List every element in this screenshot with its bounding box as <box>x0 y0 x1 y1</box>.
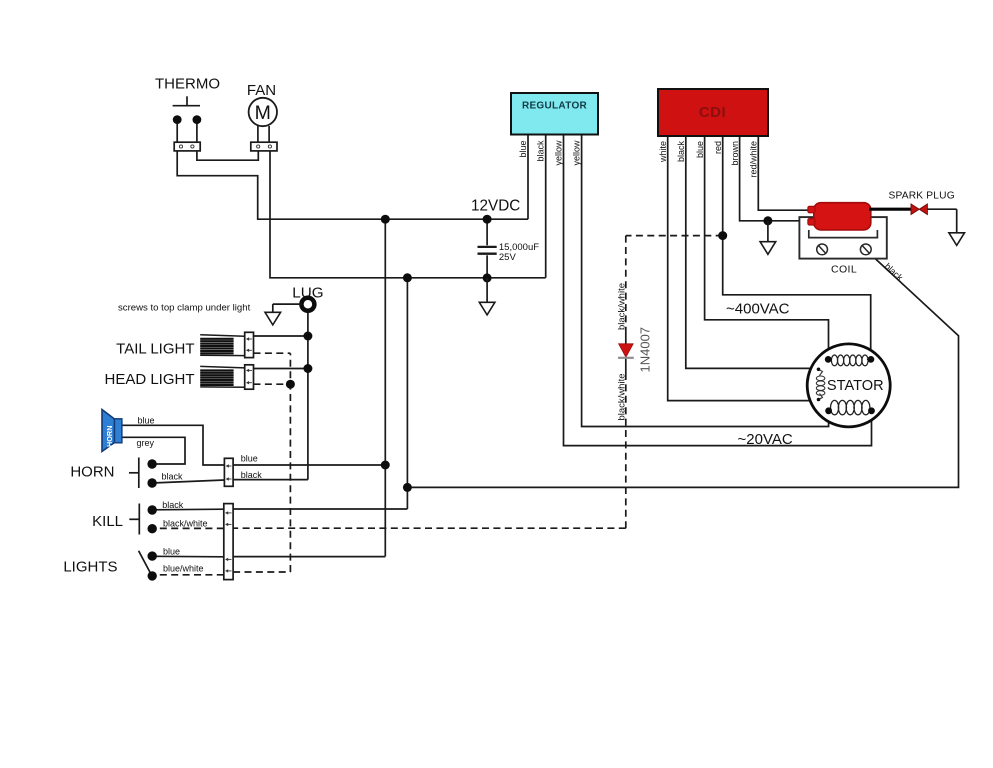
svg-text:blue/white: blue/white <box>163 564 204 574</box>
wire head light to lug <box>254 368 308 370</box>
wire LIGHTS blue <box>152 555 224 558</box>
wire diode leads solid <box>625 327 627 345</box>
svg-text:screws to top clamp under ligh: screws to top clamp under light <box>118 303 251 314</box>
svg-text:black: black <box>162 500 184 510</box>
svg-text:black/white: black/white <box>616 283 627 330</box>
kill switch bracket <box>138 504 140 535</box>
svg-text:HORN: HORN <box>105 426 114 448</box>
thermo terminal left <box>173 115 182 124</box>
thermo terminal right <box>193 115 202 124</box>
ground at coil <box>767 221 769 242</box>
wire THERMO right pin to FAN left pin <box>197 151 258 160</box>
node dashed junction on CDI red <box>718 231 727 240</box>
connector tail light <box>245 332 254 357</box>
svg-text:COIL: COIL <box>831 263 857 275</box>
connector thermo <box>174 142 200 151</box>
horn switch terminal top <box>147 459 156 468</box>
svg-text:SPARK PLUG: SPARK PLUG <box>889 191 955 202</box>
wire LIGHTS blue out to 12VDC vertical <box>233 556 385 558</box>
kill switch terminal bottom <box>148 524 157 533</box>
wire regulator yellow 2 to stator lighting coil left <box>582 135 829 427</box>
coil bracket box <box>799 217 886 259</box>
node 12VDC bus dot B <box>483 215 492 224</box>
svg-text:HORN: HORN <box>70 463 114 480</box>
wire horn blue lead <box>122 425 225 465</box>
stator terminal bottom right <box>868 407 875 414</box>
coil mounting screw right <box>860 244 871 255</box>
svg-text:LIGHTS: LIGHTS <box>63 558 117 575</box>
wire tail light to lug <box>254 335 308 337</box>
svg-text:blue: blue <box>518 141 528 158</box>
head light filament coil <box>200 369 233 371</box>
svg-text:~20VAC: ~20VAC <box>738 431 793 448</box>
stator lighting coil (bottom) <box>831 400 839 414</box>
dashed wire black/white CDI junction to diode <box>625 236 627 327</box>
svg-text:TAIL LIGHT: TAIL LIGHT <box>116 340 194 357</box>
node dashed junction headlight <box>286 380 295 389</box>
node tail light junction <box>303 332 312 341</box>
dashed wire blue/white vertical <box>289 353 291 572</box>
svg-text:blue: blue <box>241 454 258 464</box>
svg-text:black/white: black/white <box>163 518 208 528</box>
svg-text:STATOR: STATOR <box>827 378 884 394</box>
node head light junction <box>303 364 312 373</box>
wire regulator blue to 12VDC bus <box>527 135 529 220</box>
stator terminal bottom left <box>825 407 832 414</box>
node horn blue junction <box>381 461 390 470</box>
svg-text:CDI: CDI <box>699 104 726 121</box>
capacitor C1 plates <box>478 246 497 248</box>
kill switch terminal top <box>148 505 157 514</box>
wire capacitor bottom lead <box>486 255 488 278</box>
wire CDI white to stator pickup <box>668 136 817 401</box>
svg-text:black: black <box>162 471 184 481</box>
wire CDI red/white to coil primary <box>758 136 808 210</box>
horn switch terminal bottom <box>147 478 156 487</box>
wire regulator black to ground bus <box>545 135 547 278</box>
wire 12VDC feed vertical <box>384 219 386 556</box>
stator circle <box>807 344 890 427</box>
wire KILL black out to ground bus <box>233 508 407 510</box>
wire CDI brown to coil ground <box>740 136 809 221</box>
svg-text:~400VAC: ~400VAC <box>726 301 790 318</box>
connector kill and lights <box>224 504 233 580</box>
connector head light <box>245 365 254 389</box>
svg-text:yellow: yellow <box>572 140 582 166</box>
wire lug to ground <box>273 303 302 305</box>
wire ground bus vertical <box>406 278 408 509</box>
wire spark plug to ground <box>927 208 956 210</box>
svg-text:white: white <box>658 141 668 163</box>
spark plug HT lead <box>869 208 911 211</box>
dashed wire blue/white LIGHTS <box>156 574 224 576</box>
stator pickup terminal top <box>817 368 821 372</box>
cdi box U1 <box>658 89 768 136</box>
lug ring terminal <box>301 298 314 311</box>
horn speaker <box>102 410 115 452</box>
svg-text:blue: blue <box>163 546 180 556</box>
wire CDI blue ~400VAC to stator <box>705 136 829 357</box>
regulator box U2 <box>511 93 598 135</box>
wire KILL black <box>152 508 224 511</box>
node kill ground junction <box>403 483 412 492</box>
diode D1 cathode bar <box>618 357 634 359</box>
lights switch terminal top <box>148 551 157 560</box>
stator pickup coil (left) <box>816 376 825 381</box>
svg-text:blue: blue <box>138 416 155 426</box>
stator charging coil (top) <box>831 355 837 366</box>
svg-text:yellow: yellow <box>554 140 564 166</box>
node coil ground junction <box>763 216 772 225</box>
coil bracket shelf <box>809 230 878 238</box>
fan motor M circle <box>249 98 277 126</box>
svg-text:THERMO: THERMO <box>155 76 220 93</box>
wire capacitor top lead <box>486 219 488 245</box>
svg-text:red: red <box>713 141 723 154</box>
svg-text:REGULATOR: REGULATOR <box>522 101 588 112</box>
wire horn grey lead <box>122 437 185 464</box>
svg-text:red/white: red/white <box>749 141 759 178</box>
dashed wire black/white horizontal to KILL <box>233 527 626 529</box>
wire horn connector blue out <box>233 464 385 466</box>
spark plug gap symbol <box>911 204 919 215</box>
wire CDI red to stator top right <box>723 136 871 357</box>
svg-text:black/white: black/white <box>616 374 627 421</box>
wire FAN motor leads <box>257 126 259 142</box>
horn switch bracket <box>138 458 140 489</box>
svg-text:black: black <box>676 141 686 163</box>
svg-text:12VDC: 12VDC <box>471 198 520 215</box>
lights switch lever <box>139 551 152 575</box>
svg-text:KILL: KILL <box>92 513 123 530</box>
wire LUG ground drop <box>307 313 309 480</box>
connector horn <box>224 458 233 486</box>
wire horn switch to connector black <box>152 480 224 483</box>
dashed wire tail light return <box>254 352 291 354</box>
lights switch terminal bottom <box>148 571 157 580</box>
wire THERMO terminal leads <box>176 121 178 142</box>
connector fan <box>251 142 277 151</box>
svg-text:M: M <box>255 102 271 124</box>
ground at spark plug <box>956 209 958 233</box>
dashed wire diode to kill bus <box>625 373 627 528</box>
svg-text:black: black <box>241 470 263 480</box>
wire CDI black to stator pickup <box>686 136 817 368</box>
svg-text:grey: grey <box>137 438 155 448</box>
svg-text:black: black <box>536 140 546 162</box>
coil T1 red body <box>814 203 871 230</box>
dashed wire head light return <box>254 383 291 385</box>
svg-text:brown: brown <box>730 141 740 166</box>
svg-text:1N4007: 1N4007 <box>638 327 653 373</box>
svg-text:FAN: FAN <box>247 82 276 99</box>
thermo switch bar <box>173 105 200 107</box>
node ground bus dot A <box>403 273 412 282</box>
wire horn connector black to lug ground <box>233 479 308 481</box>
tail light filament coil <box>200 338 233 340</box>
wire FAN right pin to ground bus <box>270 151 546 278</box>
node 12VDC bus dot A <box>381 215 390 224</box>
node ground bus dot B <box>483 273 492 282</box>
svg-text:blue: blue <box>695 141 705 158</box>
stator pickup terminal bottom <box>817 398 821 402</box>
svg-text:HEAD LIGHT: HEAD LIGHT <box>104 371 194 388</box>
wire coil bracket black ground return <box>407 251 958 487</box>
wire THERMO left pin to 12VDC bus <box>177 151 528 219</box>
diode D1 1N4007 triangle <box>619 344 634 357</box>
stator terminal top right <box>868 356 875 363</box>
ground below capacitor <box>486 278 488 302</box>
svg-text:25V: 25V <box>499 252 517 263</box>
coil mounting screw left <box>817 244 828 255</box>
wire regulator yellow 1 to stator lighting coil right <box>564 135 872 446</box>
stator terminal top left <box>825 356 832 363</box>
ground at lug <box>272 304 274 312</box>
